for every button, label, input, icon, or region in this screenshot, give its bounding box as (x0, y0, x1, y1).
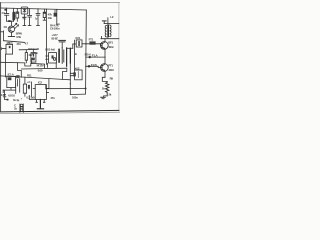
wire elbow down (48, 79, 50, 88)
wire elbow to IC2 (29, 96, 35, 100)
wire antenna line (104, 23, 119, 25)
boxed device U1 (21, 7, 28, 14)
wire ground bus lower edge (0, 112, 120, 113)
svg-text:1k: 1k (102, 87, 105, 91)
IC2 box (33, 85, 48, 100)
crystal Y1 (43, 9, 46, 20)
svg-text:1n: 1n (75, 53, 78, 56)
wire gate row (19, 50, 37, 53)
wire left stub (1, 31, 4, 41)
wire staircase left (18, 63, 22, 77)
svg-text:194c: 194c (108, 45, 114, 49)
inductor L1 (12, 8, 14, 21)
diode D2 (54, 10, 57, 17)
wire vertical node G (31, 82, 33, 96)
wire right vertical rail (85, 10, 88, 89)
svg-text:M 12v: M 12v (37, 64, 44, 68)
wire to ground (104, 96, 108, 97)
capacitor C3 (28, 9, 32, 26)
wire crystal feed (73, 44, 76, 48)
wire ground bus (1, 110, 119, 112)
capacitor C5 (59, 40, 66, 47)
filter FL1 (70, 70, 82, 80)
wire mid bus (21, 67, 67, 70)
junction node A1 (4, 9, 7, 11)
svg-text:BF1: BF1 (108, 41, 113, 45)
transistor Q2 (100, 64, 108, 78)
node dots F (70, 83, 87, 89)
op-amp IC1 box (7, 75, 20, 87)
svg-text:F1.B: F1.B (91, 63, 98, 67)
svg-text:XU1: XU1 (75, 36, 81, 40)
svg-text:+: + (21, 97, 23, 101)
transformer T1 block (49, 53, 57, 63)
node dot E (85, 43, 86, 44)
wire input (0, 47, 6, 50)
terminal arrow TP1 (86, 56, 106, 59)
resistor R3 (25, 50, 27, 63)
wire node A (7, 20, 14, 22)
terminal arrow TP2 (86, 65, 101, 68)
svg-text:DS1 4x0: DS1 4x0 (45, 47, 55, 51)
svg-text:1k: 1k (14, 106, 17, 110)
wire IC2 ground pins (36, 100, 45, 109)
crystal X1 (76, 40, 82, 47)
svg-text:4.7: 4.7 (25, 41, 29, 45)
svg-text:6.8 10: 6.8 10 (8, 94, 15, 98)
svg-text:4k7: 4k7 (28, 53, 33, 57)
wire elbow under crystal (67, 47, 73, 49)
svg-text:L2: L2 (110, 15, 114, 19)
wire T1 pins (46, 56, 57, 68)
wire horizontal W62 (1, 62, 45, 68)
wire long vertical node D (69, 48, 71, 94)
svg-text:0.1 1k0: 0.1 1k0 (26, 95, 35, 99)
capacitor C6 (58, 49, 60, 62)
wire horizontal W88 (46, 85, 86, 89)
wire stub G1 (30, 58, 32, 63)
antenna (102, 21, 106, 24)
label FT1 blob (89, 41, 95, 44)
capacitor C1 (5, 8, 9, 21)
capacitor C9 (28, 85, 30, 90)
wire horizontal below D1 (4, 41, 25, 43)
wire staircase down (63, 68, 67, 79)
resistor R1 (16, 9, 19, 21)
capacitor C2 (23, 14, 27, 26)
svg-text:IC2: IC2 (38, 81, 42, 85)
ground (101, 97, 105, 98)
wire horizontal W77 (1, 76, 71, 80)
wire IC1 pins (3, 79, 20, 94)
wire to Q1 base (82, 43, 101, 45)
wire stub node C (57, 10, 60, 24)
svg-text:FD N: FD N (85, 53, 91, 57)
microphone MIC1 box (6, 44, 13, 54)
wire vertical from MIC1 (4, 54, 6, 77)
node dots on bus (37, 8, 57, 10)
svg-text:D1: D1 (4, 25, 8, 29)
wire vertical node B (45, 9, 47, 64)
svg-text:PT1: PT1 (108, 63, 113, 67)
svg-text:4416: 4416 (108, 68, 114, 72)
svg-text:+C: +C (27, 80, 31, 84)
svg-text:C1: C1 (2, 11, 6, 15)
wire Q2 emitter (102, 77, 107, 81)
wire vertical to filter (74, 40, 76, 70)
svg-text:R11: R11 (27, 74, 32, 78)
svg-text:47n: 47n (50, 96, 55, 100)
svg-text:47n: 47n (16, 42, 21, 46)
svg-text:1k 1µ: 1k 1µ (13, 98, 20, 102)
wire V+ supply bus (1, 8, 87, 10)
svg-text:82-8Z: 82-8Z (51, 36, 58, 40)
svg-text:100n: 100n (72, 95, 78, 99)
svg-text:R9: R9 (110, 77, 114, 81)
photo transistor D1 (8, 21, 18, 36)
svg-text:1n: 1n (35, 17, 38, 21)
capacitor C8 (66, 48, 68, 66)
box oscillator G1 (31, 53, 36, 62)
transistor Q1 (100, 39, 108, 64)
capacitor C4 (36, 9, 40, 26)
svg-text:0.5k: 0.5k (16, 35, 21, 39)
resistor R2 zigzag (106, 81, 109, 96)
svg-text:C6 100n: C6 100n (50, 27, 60, 31)
svg-text:2k: 2k (108, 92, 111, 96)
resistor R4 (23, 77, 26, 96)
wire coil bottom (101, 36, 119, 38)
inductor L3 (20, 104, 23, 112)
svg-text:MIC1: MIC1 (7, 41, 14, 45)
capacitor C7 (62, 48, 64, 64)
wire return line (70, 89, 85, 95)
svg-text:10n: 10n (48, 16, 53, 20)
svg-text:F1.A: F1.A (92, 54, 99, 58)
svg-text:FT1: FT1 (89, 38, 94, 42)
inductor L2 coil (105, 18, 111, 39)
diode D3 (3, 90, 8, 100)
svg-text:IC1 A: IC1 A (8, 72, 15, 76)
svg-text:0.00: 0.00 (38, 69, 43, 73)
svg-text:XU2: XU2 (74, 66, 80, 70)
